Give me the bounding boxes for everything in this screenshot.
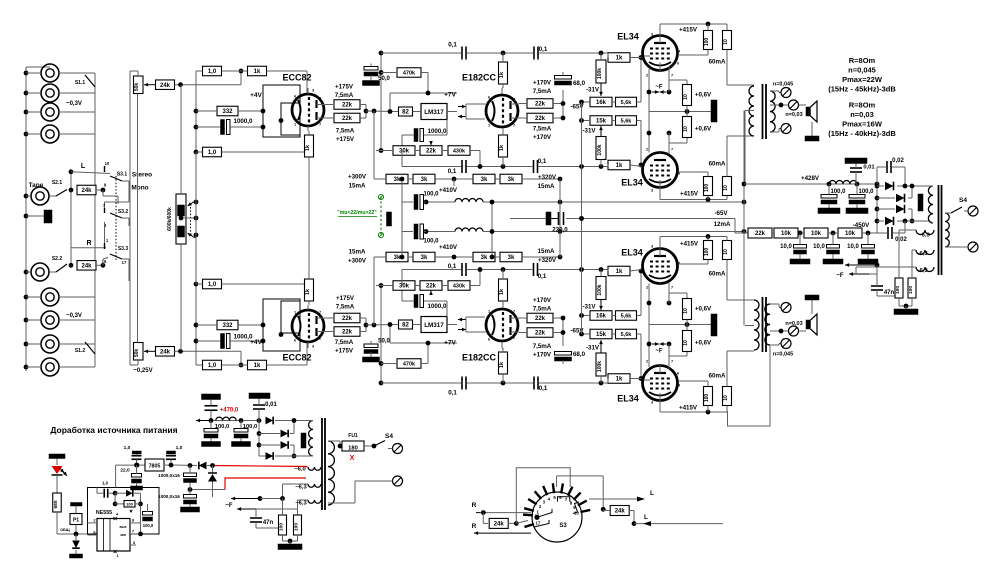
wire coupling bus <box>380 286 382 384</box>
svg-text:n=0,03: n=0,03 <box>850 110 874 119</box>
wire 100k upper <box>600 376 602 383</box>
selector line <box>94 73 96 367</box>
svg-text:100,0: 100,0 <box>830 189 846 195</box>
rotary pin 3 <box>535 491 542 499</box>
tape jack R <box>31 263 49 281</box>
wire 680 <box>56 512 58 534</box>
svg-text:50k: 50k <box>134 83 140 92</box>
svg-text:~6,3: ~6,3 <box>295 485 307 491</box>
svg-text:24k: 24k <box>160 350 171 356</box>
bus x196 middle <box>195 152 197 284</box>
svg-text:1: 1 <box>488 124 490 128</box>
resistor 100 screen upper <box>704 387 713 406</box>
svg-text:16k: 16k <box>596 314 607 320</box>
svg-text:3: 3 <box>651 33 653 37</box>
svg-text:S3.3: S3.3 <box>118 246 129 252</box>
svg-text:1000,0х16: 1000,0х16 <box>158 473 180 478</box>
switch S3.1 <box>104 166 106 172</box>
svg-text:+7V: +7V <box>444 91 456 98</box>
cathode arrows <box>652 343 659 345</box>
svg-text:~6,3: ~6,3 <box>918 233 930 239</box>
wire 22k join <box>360 104 366 106</box>
resistor 1,0 lower <box>203 279 222 289</box>
EL34 upper pins <box>659 393 661 412</box>
svg-text:1000,0: 1000,0 <box>428 128 447 135</box>
resistor 10 cathode upper <box>683 331 692 352</box>
svg-text:3k: 3k <box>421 177 428 183</box>
svg-text:16: 16 <box>102 259 107 264</box>
svg-text:7,5mA: 7,5mA <box>533 125 552 132</box>
ground speaker <box>805 136 819 141</box>
svg-text:+175V: +175V <box>335 347 354 354</box>
svg-text:S3.2: S3.2 <box>118 209 129 215</box>
capacitor 1,0 7a <box>132 451 141 454</box>
svg-text:17: 17 <box>535 521 540 526</box>
svg-text:60mA: 60mA <box>709 372 726 379</box>
svg-text:430k: 430k <box>453 284 466 290</box>
wire speaker <box>799 330 806 332</box>
svg-text:7,5mA: 7,5mA <box>533 305 552 312</box>
wire 7805 rail <box>116 464 145 466</box>
svg-text:50k: 50k <box>134 349 140 358</box>
svg-text:+300V: +300V <box>348 257 367 264</box>
svg-text:10,0: 10,0 <box>847 244 859 250</box>
svg-text:S1.1: S1.1 <box>75 80 86 86</box>
rotary pin 1 <box>524 508 534 511</box>
svg-text:16k: 16k <box>596 100 607 106</box>
capacitor 220,0 <box>510 218 546 220</box>
svg-text:0,1: 0,1 <box>448 263 457 270</box>
svg-text:100,0: 100,0 <box>215 424 230 430</box>
svg-text:0,01: 0,01 <box>863 165 875 171</box>
rotary pin 2 <box>528 499 536 504</box>
svg-text:24k: 24k <box>81 188 92 194</box>
wire 0,1 lower row <box>402 166 461 168</box>
switch S2.2 <box>49 271 56 273</box>
svg-text:7: 7 <box>671 148 673 152</box>
capacitor 555a <box>103 489 105 498</box>
capacitor bar mid <box>387 212 392 226</box>
bias feed vertical <box>581 102 583 334</box>
tube EL34 lower bottom <box>643 249 678 284</box>
svg-text:NE555: NE555 <box>96 510 112 516</box>
resistor 22k out b <box>527 113 553 123</box>
diode D4 <box>885 217 894 226</box>
svg-text:10: 10 <box>723 249 729 255</box>
rotary bridge 9-10 <box>573 502 579 514</box>
svg-text:100k: 100k <box>597 68 603 79</box>
resistor 22k anode b <box>334 113 360 123</box>
HV winding bar <box>918 194 923 211</box>
resistor 10 anode lower <box>723 241 732 260</box>
svg-text:100: 100 <box>704 184 710 193</box>
svg-text:220,0: 220,0 <box>552 227 568 234</box>
svg-text:10: 10 <box>105 161 110 166</box>
svg-text:5,6k: 5,6k <box>621 119 633 125</box>
svg-text:2: 2 <box>646 74 648 78</box>
rail 470 <box>196 420 211 422</box>
capacitor 0,02 top <box>886 161 888 173</box>
secondary taps <box>770 344 779 346</box>
svg-text:1,0: 1,0 <box>176 445 183 451</box>
svg-text:5: 5 <box>642 262 644 266</box>
IC internal <box>103 519 105 552</box>
svg-text:0,1: 0,1 <box>539 46 548 53</box>
resistor 24k R <box>77 261 96 271</box>
svg-text:7: 7 <box>319 123 321 127</box>
svg-text:ОБЩ: ОБЩ <box>60 528 70 532</box>
resistor 30k <box>393 281 415 291</box>
svg-text:100: 100 <box>126 502 133 507</box>
svg-text:1: 1 <box>294 123 296 127</box>
svg-text:5,6k: 5,6k <box>621 314 633 320</box>
wire 24k a out <box>508 522 516 524</box>
svg-text:X: X <box>350 455 355 462</box>
svg-text:2: 2 <box>513 98 515 102</box>
tube E182CC top <box>486 95 518 127</box>
terminal out 2 <box>789 326 799 336</box>
IC 555 body <box>97 519 130 552</box>
svg-text:EL34: EL34 <box>621 177 643 187</box>
wire cathodes <box>648 69 650 112</box>
switch S4 mains <box>951 207 962 213</box>
capacitor 1000x16 a <box>184 473 197 477</box>
svg-text:24k: 24k <box>81 264 92 270</box>
red wire heater 2 <box>225 478 306 490</box>
svg-text:15mA: 15mA <box>538 183 555 190</box>
svg-text:430k: 430k <box>453 149 466 155</box>
svg-text:60mA: 60mA <box>709 58 726 65</box>
svg-text:3: 3 <box>651 245 653 249</box>
svg-text:1k: 1k <box>499 71 505 78</box>
capacitor bar cathode <box>711 314 717 336</box>
svg-text:3k: 3k <box>481 177 488 183</box>
resistor 1k grid upper <box>608 53 630 63</box>
wire grid upper <box>607 53 609 58</box>
wire 1,0 lower <box>196 151 203 153</box>
svg-text:7,5mA: 7,5mA <box>533 88 552 95</box>
wire 24k to node <box>175 84 241 86</box>
svg-text:1k: 1k <box>499 144 505 151</box>
svg-text:Tape: Tape <box>29 182 44 189</box>
resistor 1,0 lower <box>203 147 222 157</box>
bridge b left <box>258 421 260 457</box>
svg-text:2: 2 <box>319 97 321 101</box>
wire loop left <box>516 468 570 524</box>
resistor 22k adj <box>420 281 442 291</box>
wire feedback mid <box>308 213 310 223</box>
resistor 100k upper <box>596 353 606 376</box>
wire 22k out <box>519 332 527 334</box>
wire 1k top <box>502 53 504 62</box>
capacitor 47n psu <box>250 517 262 519</box>
resistor 470k <box>397 359 421 369</box>
svg-text:-31V: -31V <box>586 86 600 93</box>
svg-text:L: L <box>644 514 648 521</box>
svg-text:6: 6 <box>488 96 490 100</box>
capacitor 0,1 coupling <box>461 47 463 60</box>
svg-text:+0,6V: +0,6V <box>695 91 712 98</box>
wire cathodes <box>648 325 650 368</box>
wire reg cap <box>402 300 414 302</box>
svg-text:6: 6 <box>488 338 490 342</box>
mains primary <box>945 213 949 247</box>
ground 1000 <box>181 507 200 512</box>
svg-text:24k: 24k <box>494 522 505 528</box>
ground 100,0 r1 <box>818 208 840 214</box>
heater line F1 <box>845 264 877 266</box>
terminal out 3 <box>781 303 791 313</box>
pot gang 1 <box>178 205 185 216</box>
resistor 22k out b <box>527 313 553 323</box>
terminal psu 1 <box>393 444 403 454</box>
diode Db2 <box>281 430 289 438</box>
resistor 24k input <box>156 347 175 357</box>
svg-text:22k: 22k <box>342 316 353 322</box>
input jack S1 top 2 <box>41 84 59 102</box>
svg-text:10,0: 10,0 <box>813 244 825 250</box>
svg-text:82: 82 <box>402 110 409 116</box>
resistor 100 pa <box>279 515 287 535</box>
inductor filter top <box>455 199 483 203</box>
svg-text:1k: 1k <box>305 288 311 295</box>
svg-text:1k: 1k <box>616 377 623 383</box>
capacitor 47n right <box>871 285 883 287</box>
resistor 10 cathode lower <box>683 117 692 138</box>
resistor 1k grid upper <box>608 374 630 384</box>
EL34 lower pins <box>659 180 661 200</box>
svg-text:10k: 10k <box>845 231 856 237</box>
resistor 5,6k b <box>616 311 637 321</box>
resistor 3k c bottom <box>473 252 495 262</box>
svg-text:100: 100 <box>294 523 300 531</box>
B+ vertical <box>743 111 745 326</box>
speaker top <box>806 107 811 116</box>
terminal out 2 <box>789 100 799 110</box>
svg-text:1k: 1k <box>616 163 623 169</box>
wire common <box>70 172 72 265</box>
wire 555 top <box>115 465 117 487</box>
svg-text:15k: 15k <box>596 119 607 125</box>
wire screen lower <box>707 196 709 200</box>
tube pins <box>307 88 309 94</box>
svg-text:15k: 15k <box>596 332 607 338</box>
svg-text:6: 6 <box>294 95 296 99</box>
capacitor 0,1 lower <box>461 263 463 276</box>
svg-text:100,0: 100,0 <box>143 523 154 528</box>
resistor 16k <box>590 97 612 107</box>
svg-text:22k: 22k <box>342 330 353 336</box>
tube pins E182CC <box>501 342 503 348</box>
svg-text:7,5mA: 7,5mA <box>335 339 354 346</box>
rotary wiper 2 <box>534 520 549 527</box>
svg-text:3k: 3k <box>421 255 428 261</box>
wire LED <box>56 475 58 493</box>
ground 10,0 a <box>790 259 810 264</box>
svg-text:(15Hz - 40kHz)-3dB: (15Hz - 40kHz)-3dB <box>828 129 896 138</box>
resistor 10 anode lower <box>723 177 732 196</box>
wire divider <box>582 333 591 335</box>
svg-text:0,1: 0,1 <box>538 273 547 280</box>
svg-text:0,1: 0,1 <box>448 168 457 175</box>
wire row 150 <box>376 285 393 287</box>
svg-text:22k: 22k <box>342 103 353 109</box>
svg-text:7: 7 <box>671 286 673 290</box>
svg-text:1,0: 1,0 <box>208 69 217 75</box>
pot wires <box>180 172 182 194</box>
input jack S1 bottom 3 <box>41 335 59 353</box>
wire S3.2b <box>104 222 106 243</box>
wire LM317 <box>413 324 422 326</box>
svg-text:1: 1 <box>294 311 296 315</box>
wire cap <box>196 126 221 128</box>
LED red <box>49 454 65 459</box>
svg-text:7,5mA: 7,5mA <box>336 303 355 310</box>
svg-text:470k: 470k <box>403 71 416 77</box>
resistor 1k <box>248 66 267 76</box>
svg-text:E182CC: E182CC <box>462 352 497 362</box>
resistor 10 cathode lower <box>683 299 692 320</box>
capacitor 1000,0 <box>221 334 225 349</box>
wire 100 p <box>282 499 284 516</box>
bus x181 <box>180 85 182 172</box>
svg-text:+7V: +7V <box>444 339 456 346</box>
rotary pin 7 <box>568 487 573 496</box>
svg-text:EL34: EL34 <box>621 247 643 257</box>
input jack S1 top 1 <box>41 64 59 82</box>
svg-text:+415V: +415V <box>679 26 698 33</box>
resistor 5,6k b <box>616 116 637 126</box>
svg-text:3k: 3k <box>508 177 515 183</box>
chassis ground bar <box>44 210 52 223</box>
svg-text:Доработка источника питания: Доработка источника питания <box>50 425 177 435</box>
wire x402 mid <box>401 202 403 232</box>
svg-text:n=0,03: n=0,03 <box>785 321 802 327</box>
wire 1k top <box>502 374 504 383</box>
svg-text:680: 680 <box>53 500 59 508</box>
resistor 3k c top <box>473 174 495 184</box>
resistor 5,6k a <box>616 329 637 339</box>
svg-text:R=8Om: R=8Om <box>849 101 876 110</box>
power core <box>938 185 940 275</box>
wire cap 100 top <box>402 201 413 203</box>
svg-text:S4: S4 <box>959 197 967 204</box>
svg-text:3k: 3k <box>481 255 488 261</box>
svg-text:10: 10 <box>683 340 689 346</box>
svg-text:2: 2 <box>319 337 321 341</box>
svg-text:50,0: 50,0 <box>378 339 390 345</box>
ground bb <box>232 442 251 447</box>
resistor 100 555 <box>124 501 135 508</box>
svg-text:+320V: +320V <box>538 174 557 181</box>
pot wiper arrow <box>144 350 155 352</box>
svg-text:2: 2 <box>646 148 648 152</box>
diode D1 <box>885 182 894 191</box>
svg-text:~0,3V: ~0,3V <box>66 313 82 319</box>
transformer core <box>762 297 764 352</box>
wire 68 cap top <box>562 72 564 76</box>
resistor 15k <box>590 311 612 321</box>
pot 50k volume (top) <box>134 76 144 94</box>
diode 555 <box>126 490 133 497</box>
cathode arrows <box>652 91 659 93</box>
svg-text:3: 3 <box>651 401 653 405</box>
wire grid upper <box>607 379 609 384</box>
tube EL34 lower top <box>643 153 678 188</box>
resistor 100 screen upper <box>704 31 713 50</box>
svg-text:ECC82: ECC82 <box>282 72 311 82</box>
wire node up <box>240 351 242 365</box>
green measure line <box>380 197 382 235</box>
svg-text:1000,0х16: 1000,0х16 <box>158 494 180 499</box>
inductor 470 <box>216 417 236 420</box>
capacitor P1 top <box>71 503 83 507</box>
svg-text:600k/600k: 600k/600k <box>167 207 173 231</box>
terminal mains 2 <box>968 242 978 252</box>
svg-text:22k: 22k <box>342 116 353 122</box>
resistor 3k d bottom <box>500 252 522 262</box>
capacitor 0,1 lower <box>461 160 463 173</box>
capacitor 100,0 bottom <box>414 224 418 239</box>
dual pot 600k body <box>176 194 186 244</box>
heater arrows <box>458 106 466 108</box>
diode D3 <box>896 205 905 214</box>
wire mid verticals <box>559 179 561 257</box>
svg-text:5,6k: 5,6k <box>621 332 633 338</box>
input jack S1 top 4 <box>41 125 59 143</box>
capacitor 100,0 bb <box>234 429 248 433</box>
svg-text:1000,0: 1000,0 <box>428 303 447 310</box>
wire bias chain <box>772 232 774 234</box>
bridge left vertical <box>876 167 878 233</box>
resistor 100 hb <box>908 278 916 298</box>
rail +428V <box>744 183 877 185</box>
svg-text:n=0,045: n=0,045 <box>773 81 793 87</box>
resistor 100 screen lower <box>704 177 713 196</box>
capacitor 0,01 top <box>845 158 867 164</box>
capacitor 0,1 coupling <box>461 377 463 390</box>
tube pins <box>307 342 309 348</box>
resistor 3k b top <box>413 174 435 184</box>
wiring box ECC82 <box>263 299 300 351</box>
anode rail lower <box>660 199 727 201</box>
wire screen upper <box>707 24 709 31</box>
svg-text:1: 1 <box>488 310 490 314</box>
svg-text:LM317: LM317 <box>424 109 444 116</box>
transformer secondary <box>770 91 775 132</box>
wire screen upper <box>707 406 709 413</box>
PSU primary <box>328 441 334 505</box>
switch S4 psu <box>374 441 385 447</box>
svg-text:10k: 10k <box>781 231 792 237</box>
resistor 1k grid lower <box>608 160 630 170</box>
capacitor 100,0 top <box>414 195 418 210</box>
wire bus top <box>26 66 50 68</box>
wire loop right <box>557 475 604 477</box>
wire pot top loop <box>137 71 139 76</box>
wire 10 upper <box>726 406 728 413</box>
resistor 430k <box>448 146 470 156</box>
svg-text:S2.2: S2.2 <box>52 256 63 262</box>
svg-text:100,0: 100,0 <box>858 189 874 195</box>
svg-text:5: 5 <box>642 50 644 54</box>
svg-text:30k: 30k <box>399 149 410 155</box>
resistor 24k L <box>77 185 96 195</box>
svg-text:+0,6V: +0,6V <box>695 339 712 346</box>
svg-text:1,0: 1,0 <box>208 363 217 369</box>
svg-text:R: R <box>472 502 477 509</box>
wire R in line <box>476 512 486 514</box>
